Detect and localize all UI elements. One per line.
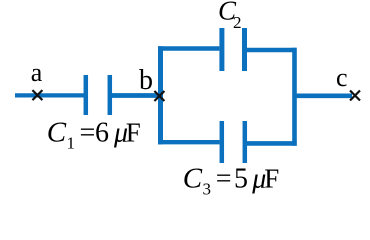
svg-text:F: F	[126, 118, 141, 148]
svg-text:6: 6	[95, 118, 109, 149]
svg-text:=: =	[80, 118, 96, 149]
svg-text:C: C	[183, 162, 203, 194]
svg-text:3: 3	[203, 180, 212, 199]
svg-text:b: b	[139, 65, 153, 96]
svg-text:C: C	[47, 117, 67, 149]
svg-text:c: c	[336, 63, 348, 92]
svg-text:a: a	[31, 58, 43, 87]
svg-text:2: 2	[233, 13, 242, 32]
svg-text:1: 1	[67, 134, 76, 153]
svg-text:F: F	[264, 163, 279, 193]
svg-text:5: 5	[234, 163, 248, 194]
svg-text:=: =	[216, 163, 232, 194]
